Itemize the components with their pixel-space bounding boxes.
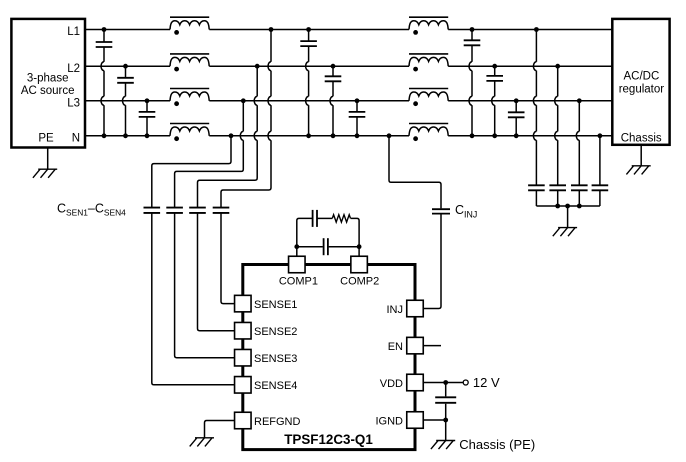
- capacitor CX4 (L1-N): [300, 27, 317, 138]
- choke CM2 winding L2: [409, 54, 448, 72]
- svg-text:REFGND: REFGND: [254, 416, 301, 428]
- svg-text:regulator: regulator: [619, 84, 665, 96]
- capacitor CX5 (L2-N): [325, 64, 342, 138]
- wire REFGND to ground: [205, 421, 235, 438]
- svg-text:SENSE4: SENSE4: [254, 380, 297, 392]
- capacitor CX2 (L2-N): [117, 64, 134, 138]
- svg-text:Chassis (PE): Chassis (PE): [459, 437, 535, 452]
- svg-text:AC source: AC source: [21, 85, 75, 97]
- svg-text:SENSE2: SENSE2: [254, 326, 297, 338]
- wire N sense tap: [152, 133, 234, 207]
- label CSEN1-CSEN4: [57, 201, 126, 217]
- capacitor CSEN2: [189, 208, 206, 213]
- choke CM1 winding L2: [170, 54, 209, 72]
- wire COMP2 riser: [351, 218, 362, 256]
- ground chassis (IGND): [431, 437, 535, 452]
- wire L2 sense tap: [198, 64, 260, 208]
- capacitor CY2 (L2-chassis): [549, 64, 566, 206]
- choke CM2 winding L1: [409, 17, 448, 35]
- svg-text:L3: L3: [67, 98, 80, 110]
- pin REFGND: [235, 412, 301, 429]
- svg-text:TPSF12C3-Q1: TPSF12C3-Q1: [284, 432, 373, 447]
- capacitor CX6 (L3-N): [349, 98, 366, 138]
- svg-text:COMP1: COMP1: [279, 276, 318, 288]
- capacitor CX1 (L1-N): [96, 27, 113, 138]
- svg-text:L2: L2: [67, 63, 80, 75]
- capacitor CY4 (N-chassis): [592, 133, 609, 206]
- choke CM2 winding L3: [409, 89, 448, 107]
- svg-text:VDD: VDD: [380, 378, 403, 390]
- capacitor CVDD: [435, 383, 456, 421]
- resistor RCOMP: [332, 215, 350, 222]
- svg-text:3-phase: 3-phase: [27, 73, 69, 85]
- wire L1: [86, 29, 613, 31]
- wire VDD to 12V: [423, 380, 463, 385]
- wire L2: [86, 65, 613, 67]
- pin SENSE2: [235, 322, 298, 339]
- capacitor CCOMP (series): [313, 210, 317, 227]
- svg-text:N: N: [72, 133, 80, 145]
- wire CSEN3 to SENSE3: [175, 213, 235, 358]
- wire L3 sense tap: [175, 98, 246, 207]
- pin COMP2: [340, 256, 379, 287]
- capacitor CX7 (L1-N): [464, 27, 481, 138]
- svg-text:IGND: IGND: [376, 415, 404, 427]
- capacitor CSEN3: [166, 208, 183, 213]
- svg-text:L1: L1: [67, 26, 80, 38]
- pin INJ: [387, 300, 424, 317]
- capacitor CSEN1: [213, 208, 230, 213]
- svg-text:EN: EN: [388, 341, 403, 353]
- pin SENSE3: [235, 349, 298, 366]
- wire CSEN2 to SENSE2: [198, 213, 235, 331]
- wire L1 sense tap: [221, 27, 273, 207]
- ground REFGND: [190, 438, 214, 447]
- svg-text:Chassis: Chassis: [621, 132, 662, 144]
- pin SENSE4: [235, 377, 298, 394]
- wire PE stem: [47, 148, 49, 170]
- wire L3: [86, 100, 613, 102]
- pin IGND: [376, 412, 424, 429]
- terminal 12V: [463, 375, 500, 390]
- capacitor CP (COMP1-COMP2): [324, 238, 328, 255]
- wire EN stub: [423, 345, 441, 347]
- choke CM1 winding L1: [170, 17, 209, 35]
- wire comp top branch: [317, 217, 332, 219]
- pin EN: [388, 337, 424, 354]
- svg-text:SENSE3: SENSE3: [254, 353, 297, 365]
- wire CSEN4 to SENSE4: [152, 213, 235, 385]
- svg-text:COMP2: COMP2: [340, 276, 379, 288]
- capacitor CX3 (L3-N): [139, 98, 156, 138]
- choke CM1 winding N: [170, 124, 209, 142]
- capacitor CX9 (L3-N): [508, 98, 525, 138]
- svg-text:12 V: 12 V: [473, 375, 500, 390]
- AC/DC regulator box: [612, 19, 669, 145]
- capacitor CY3 (L3-chassis): [571, 98, 588, 206]
- pin VDD: [380, 374, 423, 391]
- op-amp U1 TPSF12C3-Q1 box: [243, 265, 415, 450]
- choke CM1 winding L3: [170, 89, 209, 107]
- svg-text:SENSE1: SENSE1: [254, 299, 297, 311]
- 3-phase AC source box: [11, 19, 85, 148]
- wire CINJ to INJ pin: [423, 214, 441, 309]
- pin COMP1: [279, 256, 318, 287]
- svg-text:INJ: INJ: [387, 304, 404, 316]
- svg-text:PE: PE: [38, 132, 54, 144]
- capacitor CY1 (L1-chassis): [528, 27, 545, 206]
- wire Y-cap ground bus: [536, 204, 600, 228]
- pin SENSE1: [235, 295, 298, 312]
- ground chassis (regulator): [626, 166, 650, 175]
- capacitor CSEN4: [144, 208, 161, 213]
- svg-text:AC/DC: AC/DC: [624, 71, 660, 83]
- wire CSEN1 to SENSE1: [221, 213, 235, 304]
- label CINJ: [455, 203, 477, 219]
- ground PE: [33, 169, 57, 178]
- choke CM2 winding N: [409, 124, 448, 142]
- ground chassis (Y-caps): [553, 228, 577, 237]
- wire IGND: [423, 418, 448, 441]
- wire COMP1 riser: [294, 218, 312, 256]
- wire N: [86, 135, 613, 137]
- wire comp bottom branch: [297, 246, 359, 248]
- wire chassis stem: [640, 145, 642, 166]
- capacitor CX8 (L2-N): [486, 64, 503, 138]
- wire N to CINJ: [387, 133, 441, 208]
- capacitor CINJ: [432, 209, 450, 213]
